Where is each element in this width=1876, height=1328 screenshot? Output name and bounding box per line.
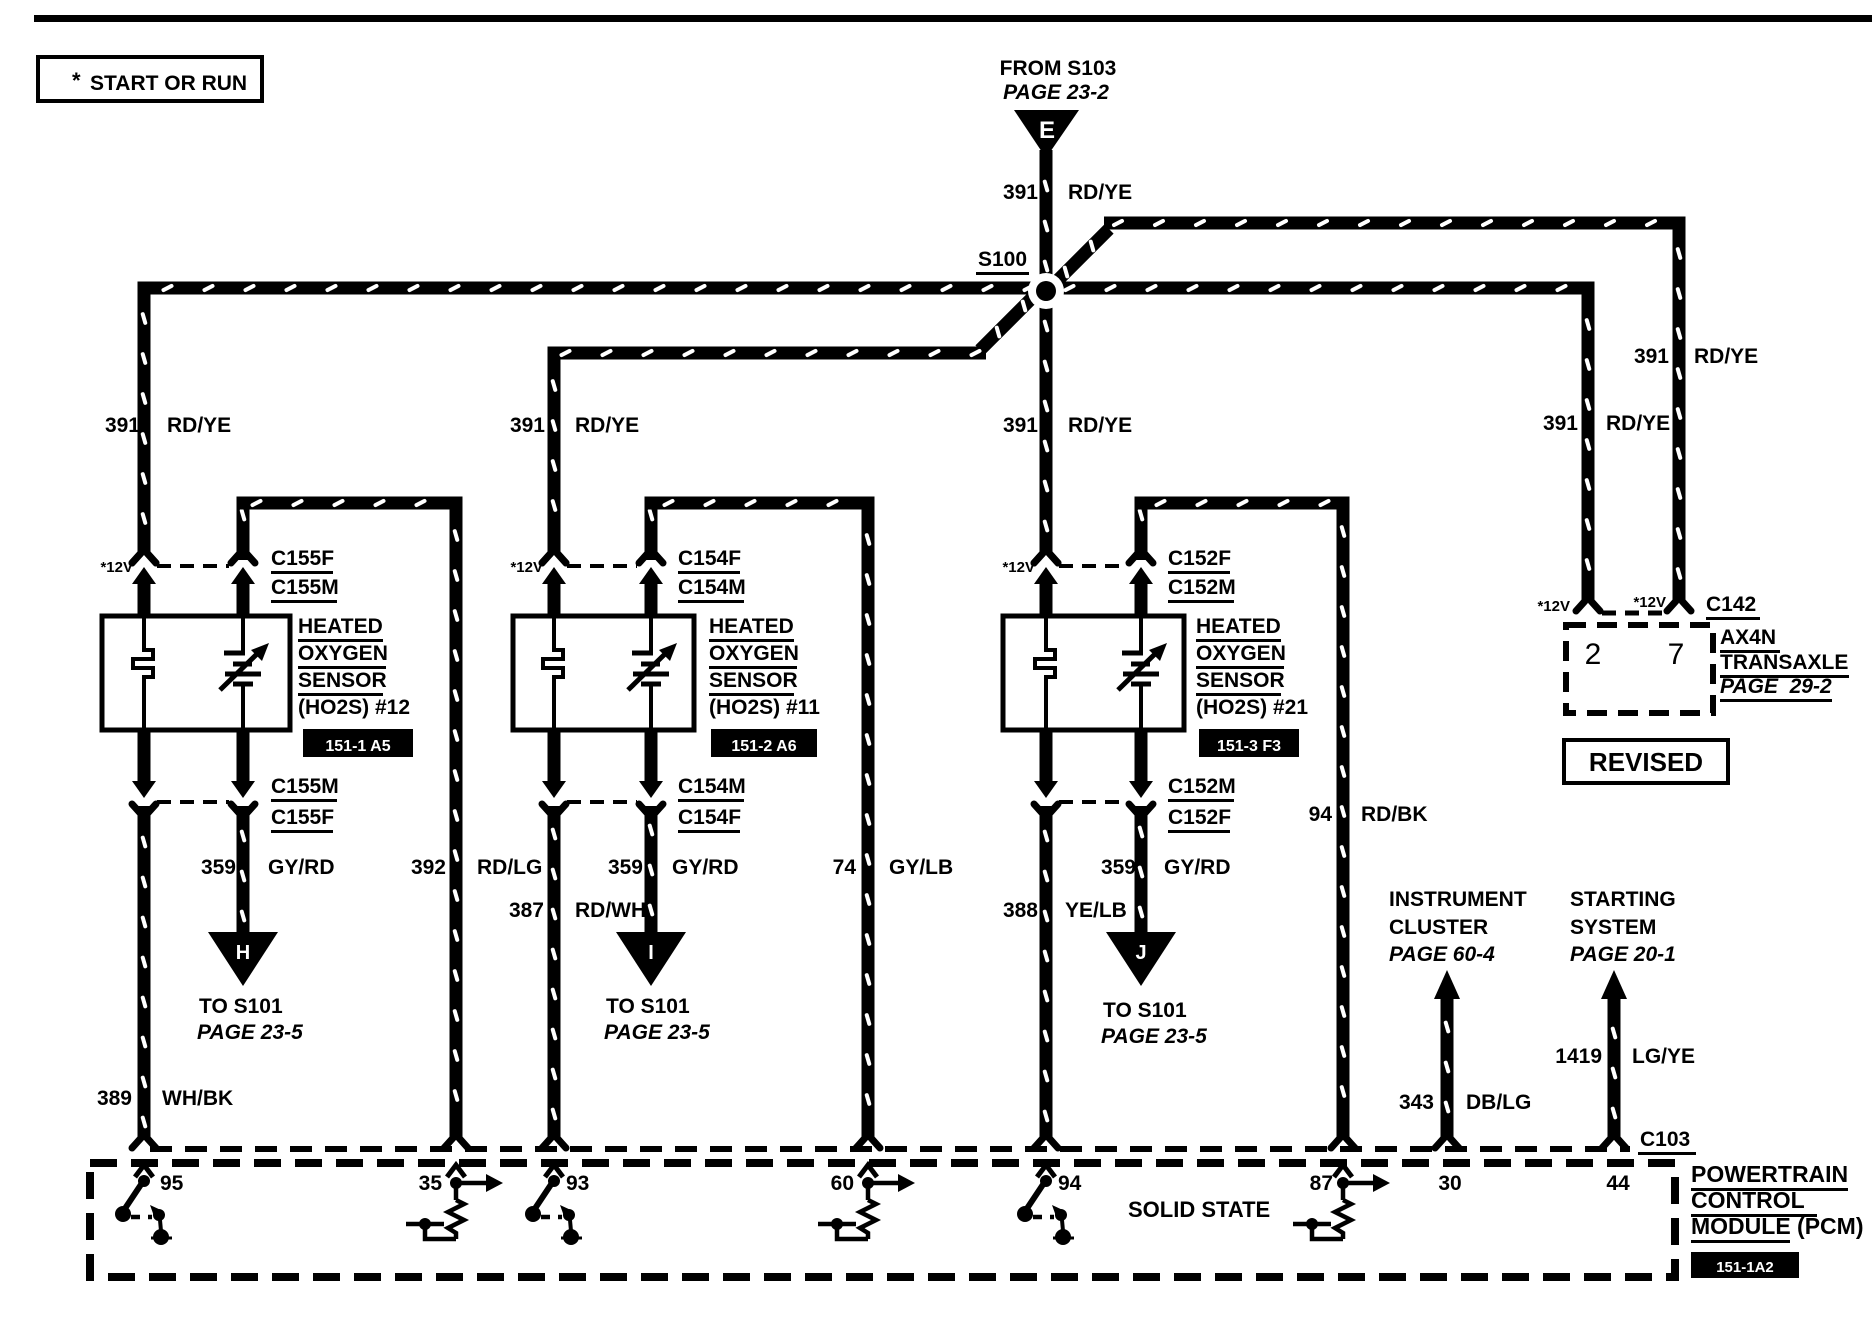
svg-text:TO S101: TO S101 — [1103, 999, 1187, 1022]
label *12V at C152 — [1002, 559, 1035, 576]
svg-text:343: 343 — [1399, 1091, 1434, 1114]
svg-text:C152F: C152F — [1168, 547, 1231, 570]
svg-text:C142: C142 — [1706, 593, 1756, 616]
wire 391 RD/YE upper branch from S100 to C142 pin 7 — [1042, 217, 1691, 612]
svg-text:FROM S103: FROM S103 — [1000, 57, 1117, 80]
svg-text:151-2 A6: 151-2 A6 — [731, 738, 796, 755]
wire 391 RD/YE from S100 straight down to HO2S #21 — [1034, 292, 1058, 563]
variable-resistance sensing element — [220, 616, 269, 730]
svg-text:389: 389 — [97, 1087, 132, 1110]
svg-text:WH/BK: WH/BK — [162, 1087, 233, 1110]
pin 2 of C142 — [1585, 638, 1602, 671]
svg-text:C154M: C154M — [678, 576, 746, 599]
svg-text:TRANSAXLE: TRANSAXLE — [1720, 651, 1848, 674]
svg-text:H: H — [236, 942, 250, 964]
wire 359 GY/RD from HO2S #12 to S101 (H) — [237, 806, 250, 934]
svg-text:CONTROL: CONTROL — [1691, 1187, 1805, 1213]
svg-text:HEATED: HEATED — [709, 615, 794, 638]
svg-text:RD/BK: RD/BK — [1361, 803, 1428, 826]
svg-text:7: 7 — [1668, 638, 1685, 671]
svg-text:SOLID STATE: SOLID STATE — [1128, 1197, 1270, 1222]
svg-text:74: 74 — [833, 856, 857, 879]
svg-text:391: 391 — [1003, 414, 1038, 437]
off-page connector I (to S101) — [616, 932, 686, 986]
label C155M / C155F (bottom) — [271, 775, 339, 833]
svg-text:RD/YE: RD/YE — [1068, 181, 1132, 204]
svg-text:*12V: *12V — [100, 559, 133, 576]
label C154M / C154F (bottom) — [678, 775, 746, 833]
svg-text:60: 60 — [831, 1172, 854, 1195]
label 391 RD/YE (middle branch) — [510, 414, 639, 437]
svg-text:94: 94 — [1058, 1172, 1082, 1195]
svg-text:SENSOR: SENSOR — [1196, 669, 1285, 692]
svg-text:359: 359 — [201, 856, 236, 879]
svg-text:391: 391 — [1634, 345, 1669, 368]
svg-text:PAGE 23-5: PAGE 23-5 — [1101, 1025, 1207, 1048]
wire 389 WH/BK from HO2S #12 to PCM pin 95 — [132, 806, 156, 1148]
svg-text:RD/YE: RD/YE — [1694, 345, 1758, 368]
label 74 GY/LB — [833, 856, 954, 879]
svg-text:95: 95 — [160, 1172, 184, 1195]
heater element inside HO2S (pin C155) — [133, 616, 153, 730]
label C155F / C155M — [271, 547, 339, 603]
PCM pin 35 (HO2S #12 signal) — [406, 1165, 503, 1239]
PCM pin 94 (HO2S #21 heater ground driver) — [1017, 1165, 1082, 1245]
svg-text:*12V: *12V — [510, 559, 543, 576]
svg-text:C152F: C152F — [1168, 806, 1231, 829]
wires HO2S outputs to connector C152M (bottom) — [1040, 730, 1148, 783]
svg-text:RD/YE: RD/YE — [1606, 412, 1670, 435]
svg-text:C155M: C155M — [271, 775, 339, 798]
svg-text:(HO2S) #12: (HO2S) #12 — [298, 696, 410, 719]
wire 391 RD/YE from connector E down to splice S100 — [1040, 150, 1053, 292]
heater element inside HO2S (pin C152) — [1035, 616, 1055, 730]
svg-text:SENSOR: SENSOR — [709, 669, 798, 692]
svg-text:C103: C103 — [1640, 1128, 1690, 1151]
tag 151-1A2 — [1691, 1252, 1799, 1278]
label 359 GY/RD (HO2S #21) — [1101, 856, 1231, 879]
label AX4N TRANSAXLE PAGE 29-2 — [1720, 626, 1849, 702]
label 392 RD/LG — [411, 856, 542, 879]
label 391 RD/YE (branch to C142 pin 2) — [1543, 412, 1670, 435]
PCM pin 93 (HO2S #11 heater ground driver) — [525, 1165, 589, 1245]
svg-text:1419: 1419 — [1555, 1045, 1602, 1068]
wire 391 RD/YE branch from S100 down-left to HO2S #11 — [542, 288, 1042, 563]
svg-text:C155F: C155F — [271, 806, 334, 829]
svg-text:REVISED: REVISED — [1589, 747, 1703, 777]
svg-text:RD/YE: RD/YE — [1068, 414, 1132, 437]
splice node S100 — [1028, 273, 1064, 309]
wire 74 GY/LB loop from C154F to PCM pin 60 — [645, 497, 881, 1149]
svg-text:J: J — [1135, 942, 1146, 964]
svg-text:PAGE 23-2: PAGE 23-2 — [1003, 81, 1109, 104]
svg-text:SYSTEM: SYSTEM — [1570, 916, 1656, 939]
label POWERTRAIN CONTROL MODULE (PCM) — [1691, 1161, 1863, 1243]
label C152M / C152F (bottom) — [1168, 775, 1236, 833]
svg-text:YE/LB: YE/LB — [1065, 899, 1127, 922]
svg-text:TO S101: TO S101 — [199, 995, 283, 1018]
label 387 RD/WH — [509, 899, 646, 922]
connector C155M/C155F (bottom) — [132, 781, 255, 814]
label 391 RD/YE (branch to HO2S #21) — [1003, 414, 1132, 437]
label TO S101 PAGE 23-5 (H) — [197, 995, 303, 1044]
label 359 GY/RD (HO2S #11) — [608, 856, 739, 879]
svg-text:GY/RD: GY/RD — [268, 856, 335, 879]
label *12V at C155 — [100, 559, 133, 576]
svg-text:C152M: C152M — [1168, 775, 1236, 798]
svg-text:391: 391 — [1543, 412, 1578, 435]
svg-text:151-1 A5: 151-1 A5 — [325, 738, 390, 755]
svg-text:OXYGEN: OXYGEN — [298, 642, 388, 665]
variable-resistance sensing element — [1118, 616, 1167, 730]
label S100 — [976, 248, 1029, 275]
label 391 RD/YE (top, at E) — [1003, 181, 1132, 204]
PCM pin 30 — [1438, 1172, 1461, 1195]
wire 343 DB/LG from instrument cluster to PCM pin 30 — [1434, 970, 1460, 1148]
PCM pin 87 (HO2S #21 signal) — [1293, 1165, 1390, 1239]
svg-text:E: E — [1039, 117, 1055, 144]
svg-text:RD/YE: RD/YE — [575, 414, 639, 437]
svg-text:35: 35 — [419, 1172, 443, 1195]
label TO S101 PAGE 23-5 (J) — [1101, 999, 1207, 1048]
label HEATED OXYGEN SENSOR (HO2S) #12 — [298, 615, 410, 719]
label HEATED OXYGEN SENSOR (HO2S) #21 — [1196, 615, 1308, 719]
connector C154F/C154M (top, *12V feed) — [542, 553, 663, 618]
svg-text:GY/RD: GY/RD — [1164, 856, 1231, 879]
svg-text:MODULE (PCM): MODULE (PCM) — [1691, 1213, 1863, 1239]
svg-text:94: 94 — [1309, 803, 1333, 826]
label HEATED OXYGEN SENSOR (HO2S) #11 — [709, 615, 820, 719]
label 388 YE/LB — [1003, 899, 1127, 922]
label 359 GY/RD (HO2S #12) — [201, 856, 335, 879]
svg-text:RD/WH: RD/WH — [575, 899, 646, 922]
svg-text:CLUSTER: CLUSTER — [1389, 916, 1488, 939]
svg-text:391: 391 — [1003, 181, 1038, 204]
connector C103 (dashed interface line) — [150, 1146, 1630, 1152]
wire 1419 LG/YE from starting system to PCM pin 44 — [1601, 970, 1627, 1148]
label TO S101 PAGE 23-5 (I) — [604, 995, 710, 1044]
PCM pin 44 — [1606, 1172, 1630, 1195]
label FROM S103 PAGE 23-2 — [1000, 57, 1117, 104]
svg-text:*: * — [72, 68, 81, 93]
svg-text:87: 87 — [1310, 1172, 1333, 1195]
svg-text:151-3 F3: 151-3 F3 — [1217, 738, 1281, 755]
svg-text:C154M: C154M — [678, 775, 746, 798]
svg-text:PAGE 20-1: PAGE 20-1 — [1570, 943, 1676, 966]
heated oxygen sensor box HO2S #12 — [102, 616, 290, 730]
label C142 — [1706, 593, 1760, 620]
off-page connector H (to S101) — [208, 932, 278, 986]
wire 391 RD/YE branch (left end of bus) down to HO2S #12 — [132, 295, 156, 564]
svg-text:*12V: *12V — [1633, 594, 1666, 611]
PCM pin 60 (HO2S #11 signal) — [818, 1165, 915, 1239]
label 391 RD/YE (left branch) — [105, 414, 231, 437]
connector C154M/C154F (bottom) — [542, 781, 663, 814]
svg-text:TO S101: TO S101 — [606, 995, 690, 1018]
svg-text:PAGE 60-4: PAGE 60-4 — [1389, 943, 1495, 966]
svg-text:RD/YE: RD/YE — [167, 414, 231, 437]
svg-text:44: 44 — [1606, 1172, 1630, 1195]
svg-text:PAGE 23-5: PAGE 23-5 — [604, 1021, 710, 1044]
svg-text:LG/YE: LG/YE — [1632, 1045, 1695, 1068]
svg-text:391: 391 — [105, 414, 140, 437]
note box REVISED — [1564, 740, 1728, 783]
label *12V at C142 pin 2 — [1537, 598, 1570, 615]
label *12V at C154 — [510, 559, 543, 576]
svg-text:359: 359 — [1101, 856, 1136, 879]
svg-text:PAGE 23-5: PAGE 23-5 — [197, 1021, 303, 1044]
svg-text:C154F: C154F — [678, 547, 741, 570]
PCM pin 95 (HO2S #12 heater ground driver) — [115, 1165, 184, 1245]
wires HO2S outputs to connector C154M (bottom) — [548, 730, 658, 783]
svg-text:(HO2S) #21: (HO2S) #21 — [1196, 696, 1308, 719]
connector C155F/C155M (top, *12V feed) — [132, 553, 255, 618]
svg-text:388: 388 — [1003, 899, 1038, 922]
wires HO2S outputs to connector C155M (bottom) — [138, 730, 250, 783]
svg-text:C155F: C155F — [271, 547, 334, 570]
connector C152F/C152M (top, *12V feed) — [1034, 553, 1153, 618]
svg-text:HEATED: HEATED — [298, 615, 383, 638]
svg-text:*12V: *12V — [1002, 559, 1035, 576]
tag 151-3 F3 — [1199, 729, 1299, 757]
svg-text:93: 93 — [566, 1172, 589, 1195]
svg-text:INSTRUMENT: INSTRUMENT — [1389, 888, 1527, 911]
svg-text:359: 359 — [608, 856, 643, 879]
svg-text:I: I — [648, 942, 654, 964]
label 1419 LG/YE — [1555, 1045, 1695, 1068]
label 94 RD/BK — [1309, 803, 1428, 826]
variable-resistance sensing element — [628, 616, 677, 730]
svg-text:387: 387 — [509, 899, 544, 922]
note box: START OR RUN legend — [38, 57, 262, 101]
wire 391 RD/YE branch to C142 pin 2 — [1576, 295, 1600, 612]
svg-text:S100: S100 — [978, 248, 1027, 271]
wire 359 GY/RD from HO2S #21 to S101 (J) — [1135, 806, 1148, 934]
svg-text:151-1A2: 151-1A2 — [1716, 1259, 1774, 1276]
svg-text:C154F: C154F — [678, 806, 741, 829]
svg-text:START OR RUN: START OR RUN — [90, 72, 247, 95]
wire 387 RD/WH from HO2S #11 to PCM pin 93 — [542, 806, 566, 1148]
label C103 — [1638, 1128, 1696, 1155]
svg-text:HEATED: HEATED — [1196, 615, 1281, 638]
wire 359 GY/RD from HO2S #11 to S101 (I) — [645, 806, 658, 934]
svg-text:GY/LB: GY/LB — [889, 856, 953, 879]
label STARTING SYSTEM PAGE 20-1 — [1570, 888, 1676, 966]
svg-text:DB/LG: DB/LG — [1466, 1091, 1531, 1114]
label 391 RD/YE (branch to C142 pin 7) — [1634, 345, 1758, 368]
svg-text:2: 2 — [1585, 638, 1602, 671]
off-page connector J (to S101) — [1106, 932, 1176, 986]
svg-text:POWERTRAIN: POWERTRAIN — [1691, 1161, 1848, 1187]
tag 151-2 A6 — [711, 729, 817, 757]
label 343 DB/LG — [1399, 1091, 1531, 1114]
wire 388 YE/LB from HO2S #21 to PCM pin 94 — [1034, 806, 1058, 1148]
svg-text:(HO2S) #11: (HO2S) #11 — [709, 696, 820, 719]
wire 94 RD/BK loop from C152F to PCM pin 87 — [1135, 497, 1356, 1149]
label SOLID STATE — [1128, 1197, 1270, 1222]
svg-text:SENSOR: SENSOR — [298, 669, 387, 692]
svg-text:AX4N: AX4N — [1720, 626, 1776, 649]
module box: POWERTRAIN CONTROL MODULE (PCM) — [90, 1163, 1675, 1277]
connector C142 (dashed box) — [1566, 613, 1713, 713]
heated oxygen sensor box HO2S #21 — [1003, 616, 1184, 730]
svg-text:PAGE 29-2: PAGE 29-2 — [1720, 675, 1832, 698]
tag 151-1 A5 — [303, 729, 413, 757]
off-page connector E (from S103) — [1014, 110, 1079, 158]
svg-text:C155M: C155M — [271, 576, 339, 599]
connector C152M/C152F (bottom) — [1034, 781, 1153, 814]
wire 391 RD/YE main horizontal bus through S100 — [138, 282, 1595, 295]
heated oxygen sensor box HO2S #11 — [513, 616, 694, 730]
heater element inside HO2S (pin C154) — [543, 616, 563, 730]
label 389 WH/BK — [97, 1087, 233, 1110]
svg-text:RD/LG: RD/LG — [477, 856, 542, 879]
svg-text:STARTING: STARTING — [1570, 888, 1676, 911]
label *12V at C142 pin 7 — [1633, 594, 1666, 611]
svg-text:392: 392 — [411, 856, 446, 879]
svg-text:391: 391 — [510, 414, 545, 437]
label C152F / C152M — [1168, 547, 1236, 603]
svg-text:GY/RD: GY/RD — [672, 856, 739, 879]
svg-text:C152M: C152M — [1168, 576, 1236, 599]
svg-text:*12V: *12V — [1537, 598, 1570, 615]
svg-text:30: 30 — [1438, 1172, 1461, 1195]
svg-text:OXYGEN: OXYGEN — [709, 642, 799, 665]
wire 392 RD/LG loop from C155F to PCM pin 35 — [237, 497, 469, 1149]
label C154F / C154M — [678, 547, 746, 603]
svg-text:OXYGEN: OXYGEN — [1196, 642, 1286, 665]
label INSTRUMENT CLUSTER PAGE 60-4 — [1389, 888, 1527, 966]
pin 7 of C142 — [1668, 638, 1685, 671]
